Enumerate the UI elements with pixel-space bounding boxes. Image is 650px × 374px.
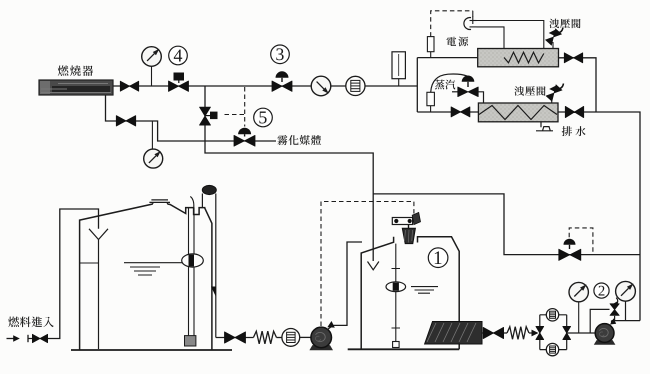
inlet valve — [32, 334, 47, 342]
flow meter FM1 — [346, 76, 365, 95]
valve lower burner — [116, 116, 135, 126]
arrow into manifold — [529, 332, 532, 334]
strainer manifold loop — [540, 315, 567, 350]
label 洩壓閥 lower — [514, 86, 524, 96]
pressure gauge PG1 — [142, 47, 162, 67]
tank1 ground — [348, 348, 460, 350]
pump P1 — [309, 345, 333, 350]
steam trap drain — [536, 122, 553, 131]
node 5 label circle — [254, 108, 273, 127]
burner — [39, 80, 113, 95]
manifold valve left — [536, 326, 544, 339]
liquid surface marks — [124, 263, 182, 275]
motor coupling tilted — [412, 212, 420, 224]
valve pump1 suction — [225, 332, 246, 343]
fill funnel — [89, 229, 108, 240]
level mark — [80, 262, 99, 264]
relief valve RV1 stem — [552, 42, 554, 49]
wire manifold to pump2 — [567, 332, 596, 334]
pipe wedge — [211, 287, 216, 297]
suction heater hatched — [425, 322, 482, 345]
back pressure valve — [559, 249, 581, 260]
solenoid actuator square — [205, 115, 210, 117]
wire heater2 outlet — [558, 112, 640, 321]
wire return loop — [373, 194, 640, 255]
wire discharge — [612, 301, 641, 324]
steam control valve — [458, 87, 478, 97]
valve at burner outlet — [120, 81, 138, 91]
pressure gauge PG2 — [144, 149, 163, 168]
dip tube — [189, 208, 195, 336]
tank2 shell — [80, 204, 212, 350]
sight glass column — [398, 79, 400, 86]
control valve V3 — [272, 81, 292, 91]
heater H2 (steam) — [478, 103, 558, 122]
valve heater1 outlet — [564, 53, 582, 63]
pressure gauge PG3 — [311, 76, 331, 96]
control valve V3 dome actuator — [276, 71, 289, 78]
relief valve RV3 — [610, 304, 619, 316]
temp sensor T2 — [430, 106, 432, 112]
wire relief branch — [590, 309, 609, 333]
relief valve RV1 — [546, 29, 562, 46]
wire junction vertical — [416, 58, 418, 112]
strainer top — [546, 309, 558, 321]
tank2 ground — [71, 349, 232, 351]
relief valve RV2 stem — [551, 97, 553, 103]
pilot dashed box — [569, 228, 593, 254]
valve heater2 outlet — [565, 106, 583, 117]
agitator motor — [392, 218, 412, 225]
spring coupling 2 — [507, 327, 529, 340]
label 蒸汽 — [435, 80, 445, 90]
heater H1 (electric) — [478, 49, 559, 67]
capillary arc — [431, 74, 468, 92]
temp sensor T1 — [430, 52, 432, 58]
tank1 shell — [361, 237, 459, 349]
control dashed motor/pump — [321, 202, 414, 327]
label 電源 — [447, 37, 457, 47]
node 3 label circle — [271, 45, 290, 64]
solenoid valve vertical — [200, 107, 211, 125]
label 洩壓閥 top — [549, 19, 559, 29]
vent cap — [202, 185, 216, 194]
manhole — [149, 200, 170, 204]
node 4 label circle — [169, 46, 188, 65]
manifold valve right — [563, 326, 571, 339]
float level sensor — [182, 254, 204, 267]
solenoid valve V4 — [169, 81, 189, 91]
wire burner lower tee — [106, 95, 277, 141]
valve heater2 feed — [451, 107, 470, 117]
wire heater1 outlet — [559, 58, 597, 112]
wire pump2 suction — [482, 332, 507, 334]
funnel hopper — [402, 228, 415, 243]
gauge PG4 stem — [578, 302, 580, 333]
wire steam into heater2 — [478, 92, 483, 103]
solenoid valve actuator — [174, 73, 185, 81]
agitator shaft — [395, 244, 397, 342]
wire recirc branch — [205, 86, 373, 261]
pump P2 — [594, 340, 616, 345]
fuel inlet arrow — [7, 338, 16, 340]
wire heater2 feed — [417, 111, 478, 113]
strainer bottom — [546, 343, 558, 355]
control dashed to power — [431, 11, 473, 37]
control valve V5 dome — [238, 128, 251, 134]
pressure gauge PG5 — [616, 281, 636, 301]
foot strainer — [185, 336, 196, 346]
burner label 燃燒器 — [58, 65, 69, 76]
tank1 fill nozzle V — [368, 262, 379, 270]
pressure gauge PG4 — [569, 282, 588, 301]
node 1 label circle — [428, 248, 448, 268]
vent pipe — [202, 194, 215, 338]
label 排水 — [562, 126, 572, 136]
steam label stub — [452, 91, 458, 93]
pressure gauge stem — [151, 67, 153, 87]
wire pump1 suction — [216, 337, 254, 339]
power plug symbol — [464, 18, 471, 30]
agitator float — [386, 282, 406, 292]
wire inlet riser — [48, 209, 99, 339]
label 霧化媒體 — [277, 135, 287, 145]
valve pump2 suction — [483, 327, 503, 338]
wire pump1 discharge — [328, 242, 363, 330]
wire main fuel line — [113, 85, 417, 87]
node 2 label circle — [594, 283, 609, 298]
wire heater1 feed — [417, 57, 477, 59]
back pressure valve dome — [564, 239, 576, 245]
pressure gauge PG2 stem — [151, 121, 153, 149]
wire plug wires — [477, 21, 544, 54]
relief valve RV2 — [546, 85, 562, 102]
spring coupling — [253, 331, 276, 344]
control valve V5 — [234, 135, 255, 146]
pilot dashed line — [225, 87, 245, 127]
inlet valve tick — [27, 335, 29, 342]
strainer S1 — [282, 329, 300, 347]
tank1 surface marks — [411, 287, 438, 294]
steam valve dome — [462, 76, 475, 82]
label 燃料進入 — [8, 317, 19, 328]
